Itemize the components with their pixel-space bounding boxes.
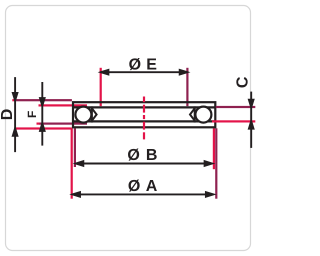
dimension ØB right extension line [213,128,215,169]
dimension D line [13,77,18,152]
centerline [143,97,145,140]
dimension ØB left extension line [74,128,76,167]
dimension F line [40,82,45,146]
centering ring right wall [190,106,195,122]
svg-text:D: D [0,109,16,121]
dimension ØE left extension line [100,68,102,106]
centering ring left wall [92,106,97,122]
dimension ØE right extension line [186,68,188,106]
O-ring right [195,107,211,123]
dimension D lower extension line [15,127,72,129]
dimension F lower extension line [37,123,88,125]
dimension F upper extension line [39,104,88,106]
dimension ØA right extension line [215,128,217,198]
dimension ØE line [101,70,187,75]
O-ring left [75,107,91,123]
svg-text:Ø B: Ø B [127,147,158,164]
dimension D upper extension line [12,99,72,101]
dimension ØB line [76,161,212,166]
svg-text:F: F [25,111,39,118]
svg-text:C: C [234,76,251,88]
flange body outline [73,102,215,127]
svg-text:Ø A: Ø A [128,178,158,195]
dimension C upper extension line [216,106,256,108]
dimension C lower extension line [212,120,255,122]
svg-text:Ø E: Ø E [129,56,158,73]
border frame [6,6,251,251]
dimension C line [249,92,254,148]
dimension ØA line [73,192,214,197]
dimension ØA left extension line [71,128,73,198]
